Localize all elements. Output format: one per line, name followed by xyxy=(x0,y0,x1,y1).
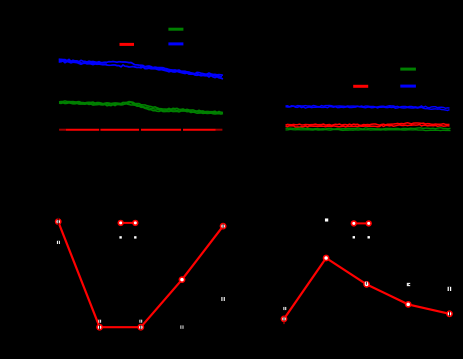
top-right red curve strand 1 xyxy=(286,123,450,126)
top-right legend green swatch xyxy=(400,68,416,71)
top-right red curve strand 2 xyxy=(286,125,450,128)
bottom-left red marker point 3 xyxy=(137,324,144,331)
bottom-right white square marker point 5 xyxy=(448,287,452,291)
bottom-left red marker point 5 xyxy=(220,223,227,230)
top-left legend green swatch xyxy=(168,28,183,31)
top-left green curve strand 3 xyxy=(59,102,223,114)
top-left red flat line xyxy=(66,129,216,131)
bottom-left legend red marker 1 xyxy=(118,220,124,226)
bottom-left legend red line xyxy=(121,222,136,224)
top-left blue curve strand 3b xyxy=(140,66,222,77)
bottom-right legend red marker 2 xyxy=(366,220,372,226)
bottom-right white square marker point 1 xyxy=(283,307,286,310)
top-right blue curve strand 1 xyxy=(286,106,450,109)
bottom-right legend white square 2 xyxy=(368,236,370,238)
top-left blue curve strand 2 xyxy=(59,61,223,79)
bottom-right legend white square 1 xyxy=(353,236,355,238)
top-left red flat line dim end cap xyxy=(216,129,223,131)
top-left green curve strand 2 xyxy=(59,103,223,114)
top-left blue curve start blip xyxy=(59,58,61,62)
bottom-left white square marker point 3 xyxy=(139,320,142,323)
bottom-right red marker point 5 xyxy=(446,310,453,317)
top-right legend red swatch xyxy=(353,85,368,88)
bottom-right red marker point 4 xyxy=(405,301,412,308)
bottom-left red marker point 2 xyxy=(96,324,103,331)
bottom-left red data line xyxy=(58,222,223,328)
bottom-left white square marker point 5 xyxy=(221,297,225,301)
top-left blue curve strand 1 xyxy=(59,59,223,75)
bottom-right white square marker point 4 xyxy=(407,283,411,286)
top-right legend blue swatch xyxy=(400,85,416,88)
top-right green curve strand 2 xyxy=(286,129,451,130)
bottom-right legend red line xyxy=(354,222,369,224)
bottom-right white square marker point 2 xyxy=(325,218,328,221)
bottom-right red data line xyxy=(284,258,450,319)
top-left red flat line dim start cap xyxy=(59,129,66,131)
bottom-left red marker point 1 xyxy=(55,217,62,226)
bottom-left white square marker point 2 xyxy=(98,320,101,323)
bottom-left legend white square 1 xyxy=(119,236,121,238)
top-right blue curve strand 2 xyxy=(286,106,450,110)
bottom-left white square marker point 1 xyxy=(57,241,60,244)
bottom-right red marker point 3 xyxy=(363,281,370,288)
top-left green curve strand 1 xyxy=(59,101,223,113)
top-left legend red swatch xyxy=(120,43,135,46)
top-left blue curve strand 3a xyxy=(59,61,107,64)
top-left legend blue swatch xyxy=(168,42,183,45)
bottom-left white square marker point 4 xyxy=(180,325,184,328)
bottom-right red marker point 2 xyxy=(323,255,330,262)
bottom-left red marker point 4 xyxy=(179,276,186,283)
top-right green curve strand 1 xyxy=(286,128,451,129)
bottom-right white square marker point 3 xyxy=(365,282,368,285)
bottom-right legend red marker 1 xyxy=(351,220,357,226)
bottom-right red marker point 1 xyxy=(281,316,288,325)
bottom-left legend red marker 2 xyxy=(132,220,138,226)
bottom-left legend white square 2 xyxy=(134,236,136,238)
